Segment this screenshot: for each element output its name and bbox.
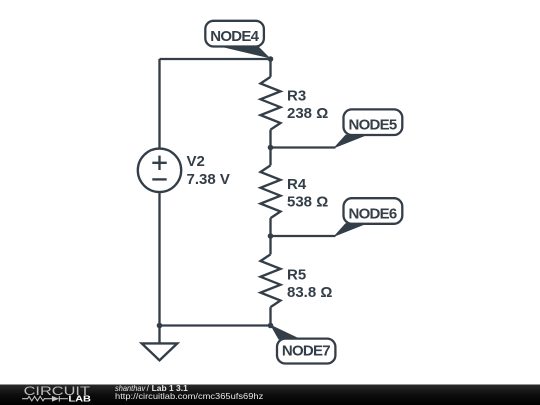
wire right vertical segment above R3 — [269, 59, 271, 77]
junction node B (NODE5) — [268, 145, 274, 151]
wire below R5 — [269, 307, 271, 325]
svg-text:NODE6: NODE6 — [349, 206, 398, 223]
junction node C (NODE6) — [268, 233, 274, 239]
svg-text:R4: R4 — [287, 176, 307, 193]
voltage source V2 circle — [138, 149, 181, 192]
wire NODE5 stub — [271, 146, 336, 148]
junction node D (NODE7) — [268, 323, 274, 329]
wire between R4 and NODE6 junction — [269, 218, 271, 254]
NODE7 flag box — [277, 339, 335, 364]
wire top horizontal NODE4 net — [160, 58, 271, 60]
svg-text:NODE5: NODE5 — [349, 117, 398, 134]
NODE4 flag tail — [222, 42, 271, 59]
resistor R3 zigzag — [261, 77, 281, 130]
svg-text:NODE4: NODE4 — [210, 28, 259, 45]
svg-text:NODE7: NODE7 — [282, 342, 331, 359]
NODE6 flag box — [344, 198, 403, 224]
svg-text:83.8 Ω: 83.8 Ω — [287, 284, 332, 301]
wire bottom horizontal NODE7 net — [160, 324, 271, 326]
NODE7 flag tail — [270, 325, 302, 340]
CircuitLab logo resistor-diode symbol — [22, 396, 68, 402]
V2 plus sign — [152, 162, 166, 164]
svg-text:7.38 V: 7.38 V — [187, 171, 230, 188]
ground symbol triangle — [142, 343, 178, 360]
NODE5 flag tail — [333, 135, 368, 149]
NODE4 flag box — [205, 21, 264, 47]
NODE6 flag tail — [333, 223, 368, 237]
svg-text:R5: R5 — [287, 266, 306, 283]
CircuitLab logo diode triangle — [52, 396, 59, 402]
svg-text:V2: V2 — [187, 153, 205, 170]
wire between R3 and NODE5 junction — [269, 130, 271, 166]
svg-text:LAB: LAB — [68, 395, 91, 404]
footer black bar — [0, 385, 540, 405]
svg-text:http://circuitlab.com/cmc365uf: http://circuitlab.com/cmc365ufs69hz — [115, 391, 263, 401]
resistor R4 zigzag — [261, 165, 281, 218]
resistor R5 zigzag — [261, 254, 281, 307]
NODE5 flag box — [344, 109, 403, 135]
wire left vertical upper — [158, 59, 160, 149]
wire NODE6 stub — [271, 235, 336, 237]
V2 minus sign — [152, 178, 166, 180]
junction node ground — [157, 323, 163, 329]
wire left vertical lower — [158, 192, 160, 344]
svg-text:R3: R3 — [287, 88, 306, 105]
junction node A top (NODE4) — [268, 56, 274, 62]
svg-text:538 Ω: 538 Ω — [287, 194, 328, 211]
svg-text:238 Ω: 238 Ω — [287, 105, 328, 122]
